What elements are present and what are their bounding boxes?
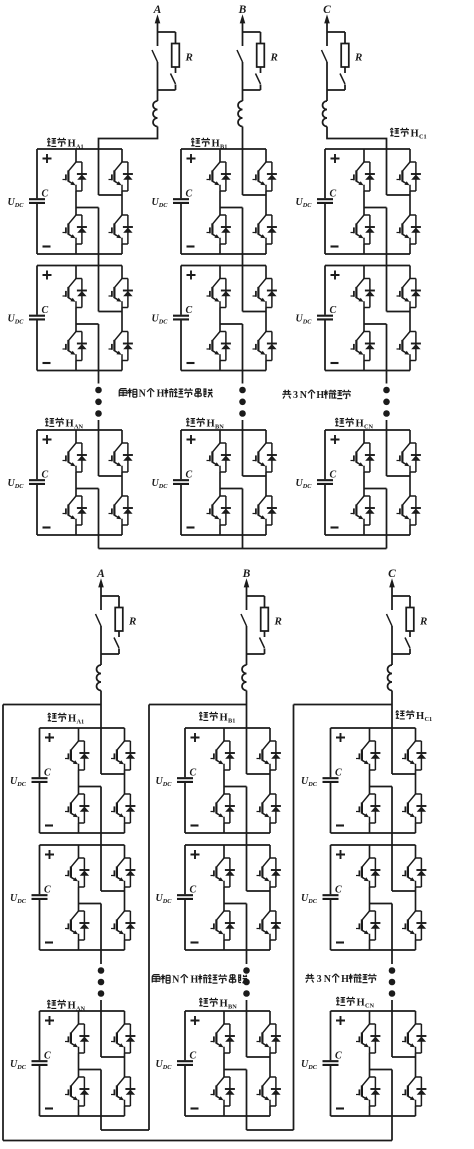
svg-text:BN: BN	[215, 424, 224, 431]
svg-text:B1: B1	[220, 144, 227, 151]
svg-text:H: H	[66, 419, 74, 430]
svg-text:AN: AN	[74, 424, 84, 431]
svg-text:3: 3	[293, 390, 298, 401]
svg-text:A: A	[153, 4, 162, 16]
svg-text:CN: CN	[365, 1003, 375, 1010]
svg-text:H: H	[356, 419, 364, 430]
svg-text:H: H	[68, 1001, 76, 1012]
svg-text:H: H	[411, 129, 419, 140]
svg-text:B: B	[242, 568, 251, 580]
svg-text:H: H	[207, 419, 215, 430]
svg-text:B1: B1	[228, 718, 235, 725]
svg-text:H: H	[212, 139, 220, 150]
svg-text:A1: A1	[76, 144, 84, 151]
svg-text:C1: C1	[419, 134, 427, 141]
svg-text:H: H	[220, 713, 228, 724]
svg-text:N: N	[139, 389, 147, 400]
svg-text:H: H	[316, 390, 324, 401]
svg-text:H: H	[416, 711, 424, 722]
svg-text:H: H	[68, 139, 76, 150]
svg-text:C1: C1	[425, 716, 433, 723]
svg-text:H: H	[341, 974, 349, 985]
svg-text:C: C	[323, 4, 331, 16]
svg-text:H: H	[357, 998, 365, 1009]
svg-text:3: 3	[317, 974, 322, 985]
svg-text:H: H	[220, 999, 228, 1010]
svg-text:C: C	[388, 568, 396, 580]
svg-text:CN: CN	[364, 424, 374, 431]
svg-text:AN: AN	[76, 1006, 86, 1013]
svg-text:A1: A1	[77, 719, 85, 726]
svg-text:N: N	[172, 975, 180, 986]
svg-text:H: H	[191, 975, 199, 986]
svg-text:N: N	[300, 390, 308, 401]
svg-text:H: H	[68, 714, 76, 725]
svg-text:A: A	[96, 568, 105, 580]
svg-text:B: B	[238, 4, 247, 16]
svg-text:H: H	[157, 389, 165, 400]
svg-text:N: N	[324, 974, 332, 985]
svg-text:BN: BN	[228, 1004, 237, 1011]
